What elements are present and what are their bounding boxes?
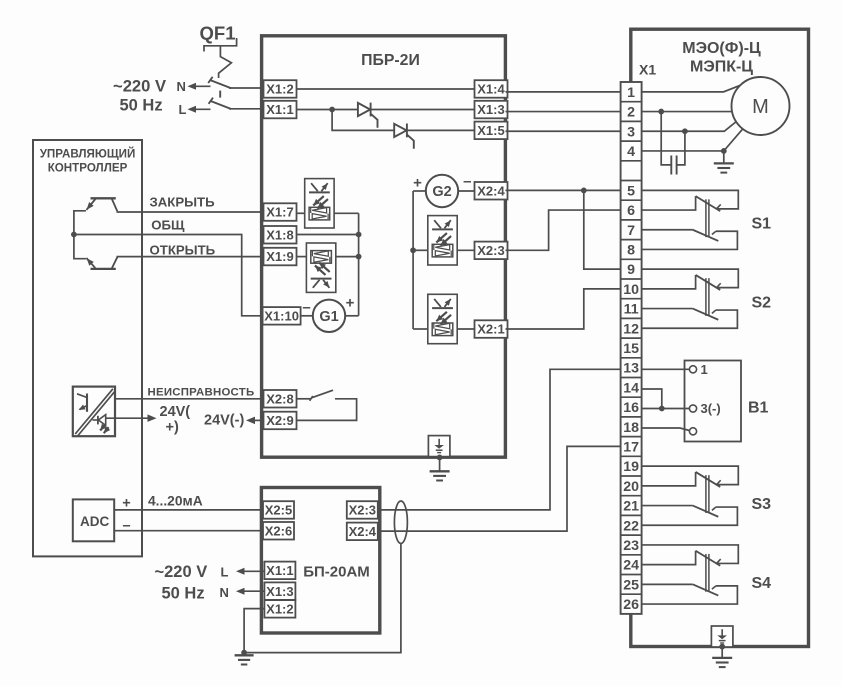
- wire БП X2:3 to terminal 13: [378, 369, 621, 510]
- terminal X2:5 (БП): [263, 501, 294, 519]
- svg-text:15: 15: [623, 341, 639, 357]
- svg-text:1: 1: [701, 362, 708, 377]
- svg-text:X1:9: X1:9: [266, 249, 293, 264]
- wire X1:1 to X1:3 (L phase inside): [296, 109, 475, 111]
- svg-text:М: М: [752, 96, 769, 118]
- terminal X1:7: [264, 203, 297, 221]
- svg-text:17: 17: [623, 439, 639, 455]
- wire X1:7 to opto U1: [297, 212, 305, 214]
- svg-text:1: 1: [627, 85, 635, 101]
- wire rail to opto U5: [413, 328, 428, 330]
- terminal X1:3: [475, 101, 508, 119]
- arrow L to X1:1: [243, 570, 264, 572]
- thyristor VS2: [394, 124, 406, 137]
- optocoupler U3 fault isolator: [73, 387, 115, 437]
- svg-text:3(-): 3(-): [701, 401, 721, 416]
- svg-text:G1: G1: [319, 309, 338, 325]
- wire X1:4 to terminal 1: [506, 91, 621, 93]
- node rail/opto U4: [410, 247, 416, 253]
- svg-text:21: 21: [623, 499, 639, 515]
- wire rail to opto U4: [413, 249, 428, 251]
- svg-text:ПБР-2И: ПБР-2И: [361, 52, 420, 69]
- limit switch S2: [642, 269, 739, 328]
- transistor Q1 ЗАКРЫТЬ output: [91, 197, 116, 199]
- cable screen ellipse: [394, 501, 407, 543]
- terminal X1:5: [475, 122, 508, 140]
- svg-text:+): +): [166, 419, 179, 435]
- terminal X1:4: [475, 80, 508, 98]
- svg-text:ADC: ADC: [80, 514, 109, 529]
- optocoupler U1 (close command): [305, 179, 334, 228]
- svg-text:2: 2: [627, 105, 635, 121]
- node common rail / ОБЩ junction: [71, 232, 77, 238]
- wire 24V(+) with arrow: [106, 417, 148, 419]
- svg-text:X1:3: X1:3: [477, 102, 504, 117]
- svg-text:X2:5: X2:5: [265, 503, 292, 518]
- generator G2: [426, 175, 458, 207]
- wire terminal 3 to motor: [642, 122, 737, 132]
- wire opto U5 to X2:1: [457, 328, 475, 330]
- svg-text:ОБЩ: ОБЩ: [151, 218, 185, 233]
- svg-text:БП-20АМ: БП-20АМ: [303, 563, 370, 580]
- svg-text:УПРАВЛЯЮЩИЙ: УПРАВЛЯЮЩИЙ: [40, 148, 136, 161]
- B1 pin 3 circle: [689, 405, 696, 412]
- transistor Q2 ОТКРЫТЬ output: [91, 268, 116, 270]
- wire X1:2 to X1:4 (N phase inside): [296, 88, 475, 90]
- terminal X2:3 (БП): [347, 501, 378, 519]
- svg-text:X1: X1: [639, 62, 656, 78]
- svg-text:X1:1: X1:1: [266, 102, 293, 117]
- wire G1 to rail: [345, 315, 358, 317]
- node rail/X1:9: [356, 254, 362, 260]
- wire terminal 4 to motor: [642, 129, 743, 151]
- svg-text:5: 5: [627, 183, 635, 199]
- optocoupler U2 (open command): [306, 243, 335, 292]
- arrow N: [194, 85, 211, 87]
- limit switch S1: [642, 190, 739, 249]
- svg-text:24: 24: [623, 558, 639, 574]
- B1 lower pin circle: [689, 428, 696, 435]
- node 14/16 junction: [659, 406, 665, 412]
- wire terminal 13 to B1 pin 1: [642, 368, 690, 370]
- svg-text:+: +: [413, 174, 422, 191]
- ground box at МЭО bottom: [711, 626, 733, 647]
- svg-text:X1:3: X1:3: [266, 584, 293, 599]
- wire terminal 14 branch: [642, 389, 662, 409]
- ADC block: [73, 499, 114, 541]
- svg-text:X1:10: X1:10: [264, 308, 299, 323]
- wire БП X2:4 to terminal 17: [378, 446, 621, 531]
- node rail/X1:8: [356, 232, 362, 238]
- wire opto U2 to rail: [336, 256, 359, 258]
- terminal X1:2: [264, 80, 297, 98]
- svg-text:X1:4: X1:4: [477, 82, 505, 97]
- node МЭО ground: [719, 644, 725, 650]
- wire left rail of feedback chain: [412, 191, 414, 329]
- svg-text:22: 22: [623, 518, 639, 534]
- svg-text:18: 18: [623, 420, 639, 436]
- svg-text:~220 V: ~220 V: [155, 563, 208, 581]
- wire ЗАКРЫТЬ to X1:7: [117, 211, 264, 213]
- wire branch to X1:5: [332, 110, 475, 131]
- svg-text:4: 4: [627, 144, 635, 160]
- wire terminal 1 to motor: [642, 85, 741, 92]
- terminal X1:8: [264, 226, 297, 244]
- wire X2:4 to terminal 5: [506, 189, 621, 191]
- wire ОБЩ to X1:10: [74, 235, 263, 316]
- wire N to X1:2: [229, 87, 264, 89]
- thyristor VS1: [358, 103, 370, 116]
- ground earth under БП: [235, 654, 254, 656]
- wire G2 to X2:4: [458, 190, 475, 192]
- terminal strip X1 pins 1-26: [621, 82, 642, 614]
- svg-text:7: 7: [627, 223, 635, 239]
- optocoupler U4 (feedback): [428, 216, 457, 265]
- svg-text:3: 3: [627, 124, 635, 140]
- svg-text:МЭПК-Ц: МЭПК-Ц: [690, 59, 753, 76]
- terminal X1:3 (БП): [264, 582, 295, 600]
- svg-text:20: 20: [623, 479, 639, 495]
- svg-text:13: 13: [623, 361, 639, 377]
- svg-text:16: 16: [623, 400, 639, 416]
- svg-text:50 Hz: 50 Hz: [162, 584, 205, 602]
- terminal X1:9: [264, 248, 297, 265]
- svg-text:ЗАКРЫТЬ: ЗАКРЫТЬ: [150, 194, 216, 209]
- svg-text:X2:3: X2:3: [349, 503, 376, 518]
- wire X2:3 to terminal 6: [506, 210, 621, 250]
- terminal X2:4: [475, 182, 508, 200]
- svg-text:QF1: QF1: [200, 23, 236, 44]
- wire rail to G2: [413, 190, 426, 192]
- svg-text:X2:4: X2:4: [349, 524, 377, 539]
- svg-text:24V(-): 24V(-): [204, 413, 244, 429]
- svg-text:S4: S4: [752, 575, 772, 592]
- svg-text:X2:1: X2:1: [477, 322, 504, 337]
- optocoupler U5 (feedback): [428, 294, 457, 343]
- terminal X2:8: [264, 390, 297, 408]
- terminal X2:6 (БП): [263, 522, 294, 540]
- wire contact loop to X2:9: [297, 399, 357, 421]
- МЭО(Ф)-Ц box: [631, 29, 809, 646]
- svg-text:X2:6: X2:6: [265, 523, 292, 538]
- wire 24V(-) arrow to X2:9: [254, 419, 264, 421]
- wire terminal 2 to motor: [642, 111, 732, 113]
- svg-text:+: +: [346, 294, 355, 311]
- svg-text:L: L: [221, 565, 229, 580]
- svg-text:X1:1: X1:1: [266, 563, 293, 578]
- node capacitor right: [682, 128, 688, 134]
- wire X1:8 to rail: [297, 234, 359, 236]
- ground earth at motor: [723, 151, 725, 163]
- svg-text:10: 10: [623, 282, 639, 298]
- generator G1: [313, 300, 345, 332]
- svg-text:X2:4: X2:4: [477, 183, 505, 198]
- wire L to X1:1: [229, 108, 264, 110]
- terminal X1:1: [264, 101, 297, 119]
- wire terminal 16 to B1 pin 3: [642, 408, 690, 410]
- svg-text:26: 26: [623, 597, 639, 613]
- terminal X1:2 (БП): [264, 600, 295, 618]
- wire ADC − to БП X2:6: [114, 530, 263, 532]
- wire opto U1 to rail: [334, 212, 359, 214]
- circuit breaker QF1: [204, 38, 237, 52]
- svg-text:ОТКРЫТЬ: ОТКРЫТЬ: [150, 243, 216, 258]
- wire right rail of control chain: [358, 213, 360, 315]
- terminal X2:3: [475, 242, 508, 260]
- terminal X1:1 (БП): [264, 562, 295, 580]
- svg-text:L: L: [179, 102, 187, 117]
- wire X1:10 to G1: [301, 315, 313, 317]
- svg-text:X2:8: X2:8: [266, 391, 293, 406]
- capacitor C1: [661, 112, 671, 165]
- wire cable shield to earth: [244, 544, 401, 653]
- ПБР-2И box: [262, 36, 506, 457]
- wire X1:5 to terminal 3: [506, 130, 621, 132]
- terminal X2:9: [264, 412, 297, 430]
- wire X1:2 (БП) to earth: [244, 609, 264, 653]
- svg-text:25: 25: [623, 577, 639, 593]
- svg-text:N: N: [177, 79, 186, 94]
- terminal X2:4 (БП): [347, 523, 378, 541]
- node motor ground: [721, 148, 727, 154]
- svg-text:G2: G2: [432, 184, 451, 200]
- ground earth at ПБР bottom: [439, 457, 441, 470]
- svg-text:+: +: [122, 495, 130, 511]
- svg-text:4...20мА: 4...20мА: [148, 493, 203, 508]
- wire НЕИСПРАВНОСТЬ to X2:8: [115, 398, 264, 400]
- svg-text:X1:7: X1:7: [266, 205, 293, 220]
- svg-text:50 Hz: 50 Hz: [120, 97, 163, 115]
- svg-text:S1: S1: [752, 216, 772, 233]
- fault contact after X2:8: [297, 398, 311, 400]
- wire common rail of outputs: [74, 211, 86, 259]
- wire X1:3 to terminal 2: [506, 111, 621, 113]
- node X2:4 branch: [581, 188, 587, 194]
- svg-text:N: N: [220, 585, 229, 600]
- limit switch S3: [642, 466, 739, 525]
- arrow N to X1:3: [243, 590, 264, 592]
- controller box УПРАВЛЯЮЩИЙ КОНТРОЛЛЕР: [33, 140, 142, 556]
- svg-text:11: 11: [624, 302, 639, 318]
- arrow L: [194, 108, 211, 110]
- svg-text:S2: S2: [752, 295, 772, 312]
- wire terminal 18 to B1 pin: [642, 428, 690, 431]
- B1 pin 1 circle: [689, 366, 696, 373]
- svg-text:–: –: [302, 299, 310, 316]
- svg-text:X1:2: X1:2: [266, 82, 293, 97]
- svg-text:КОНТРОЛЛЕР: КОНТРОЛЛЕР: [48, 162, 128, 175]
- wire X1:9 to opto U2: [297, 256, 307, 258]
- node capacitor left: [658, 109, 664, 115]
- terminal X1:10: [263, 307, 301, 325]
- wire branch to terminal 9: [584, 190, 621, 269]
- sensor B1 box: [685, 361, 742, 442]
- ground box at ПБР bottom: [428, 436, 450, 457]
- svg-text:X1:5: X1:5: [477, 123, 504, 138]
- wire X2:1 to terminal 10: [506, 289, 621, 329]
- svg-text:–: –: [463, 173, 471, 190]
- svg-text:S3: S3: [752, 496, 772, 513]
- svg-text:X2:3: X2:3: [477, 243, 504, 258]
- svg-text:14: 14: [623, 380, 639, 396]
- wire ОТКРЫТЬ to X1:9: [117, 256, 264, 258]
- svg-text:24V(: 24V(: [160, 404, 191, 420]
- svg-text:8: 8: [627, 242, 635, 258]
- ground earth below МЭО: [721, 647, 723, 658]
- node on L phase: [329, 107, 335, 113]
- motor M: [732, 77, 790, 135]
- wire opto U4 to X2:3: [457, 249, 475, 251]
- БП-20АМ box: [261, 488, 379, 634]
- svg-text:19: 19: [623, 459, 639, 475]
- svg-text:X1:2: X1:2: [266, 601, 293, 616]
- svg-text:X1:8: X1:8: [266, 227, 293, 242]
- node earth under БП: [241, 650, 247, 656]
- svg-text:НЕИСПРАВНОСТЬ: НЕИСПРАВНОСТЬ: [148, 386, 255, 398]
- svg-text:23: 23: [623, 538, 639, 554]
- svg-text:12: 12: [623, 321, 639, 337]
- node ground: [437, 455, 443, 461]
- svg-text:В1: В1: [748, 400, 769, 417]
- svg-text:9: 9: [627, 262, 635, 278]
- svg-text:~220 V: ~220 V: [113, 76, 166, 95]
- svg-text:МЭО(Ф)-Ц: МЭО(Ф)-Ц: [682, 40, 761, 57]
- svg-text:X2:9: X2:9: [266, 413, 293, 428]
- terminal X2:1: [475, 320, 508, 338]
- limit switch S4: [642, 545, 739, 604]
- wire ADC + to БП X2:5: [114, 509, 263, 511]
- svg-text:6: 6: [627, 203, 635, 219]
